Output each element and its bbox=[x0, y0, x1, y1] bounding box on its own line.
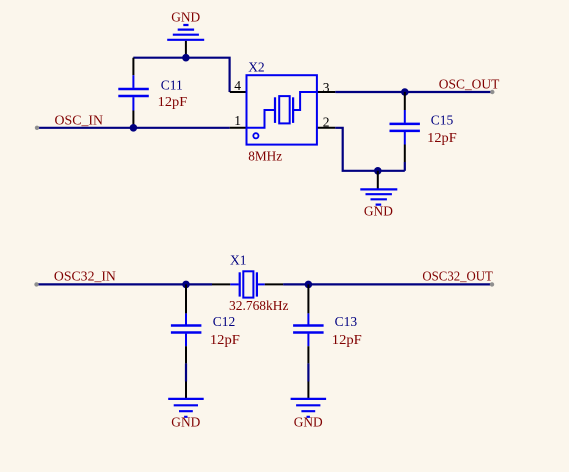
wire end marker (OSC32_IN) bbox=[34, 282, 38, 286]
svg-text:1: 1 bbox=[234, 113, 241, 128]
ground GND (below X2) bbox=[360, 171, 397, 219]
crystal oscillator X2 bbox=[230, 59, 335, 163]
capacitor C13 bbox=[293, 284, 362, 363]
svg-text:12pF: 12pF bbox=[427, 130, 457, 145]
pin 3 bbox=[317, 91, 335, 93]
crystal symbol inside bbox=[247, 110, 276, 128]
junction: C12 on OSC32 wire bbox=[182, 281, 190, 289]
body box bbox=[247, 75, 317, 144]
svg-text:GND: GND bbox=[171, 9, 200, 24]
svg-text:X1: X1 bbox=[230, 252, 247, 267]
svg-text:8MHz: 8MHz bbox=[248, 148, 282, 163]
wire end marker (OSC_IN) bbox=[35, 126, 39, 130]
wire end marker (OSC32_OUT) bbox=[490, 282, 494, 286]
ground GND (top power port) bbox=[167, 9, 204, 57]
wire: GND to C11 top and X2 pin 4 bbox=[133, 58, 229, 92]
pin 4 bbox=[230, 91, 247, 93]
crystal X1 bbox=[212, 252, 289, 312]
ground GND (below C13) bbox=[291, 382, 327, 430]
junction: ground stem on pin-2 wire bbox=[374, 167, 382, 175]
pin 2 lead bbox=[258, 283, 265, 285]
pin 1 bbox=[230, 127, 247, 129]
svg-text:12pF: 12pF bbox=[158, 94, 188, 109]
svg-text:C11: C11 bbox=[161, 78, 183, 93]
right electrode bbox=[256, 272, 258, 296]
pin 1 lead bbox=[212, 283, 230, 285]
svg-text:C12: C12 bbox=[213, 314, 236, 329]
svg-text:12pF: 12pF bbox=[210, 332, 241, 347]
wire: X2 pin 3 to OSC_OUT bbox=[335, 91, 492, 93]
wire OSC_IN bbox=[37, 127, 230, 129]
junction: C13 on OSC32 wire bbox=[305, 281, 313, 289]
junction: C15 on OSC_OUT wire bbox=[401, 88, 409, 96]
svg-text:12pF: 12pF bbox=[332, 332, 363, 347]
svg-text:C15: C15 bbox=[431, 112, 454, 127]
wire: X2 pin 2 to ground bbox=[335, 128, 405, 171]
wire OSC32_IN bbox=[37, 283, 213, 285]
svg-text:OSC32_OUT: OSC32_OUT bbox=[422, 269, 493, 284]
capacitor C12 bbox=[171, 284, 241, 363]
wire end marker (OSC_OUT) bbox=[490, 90, 494, 94]
pin 2 bbox=[317, 127, 335, 129]
svg-text:GND: GND bbox=[364, 203, 393, 218]
ground GND (below C12) bbox=[168, 382, 204, 430]
svg-text:GND: GND bbox=[294, 415, 323, 430]
svg-text:32.768kHz: 32.768kHz bbox=[229, 298, 289, 313]
capacitor C11 bbox=[118, 58, 187, 128]
crystal body bbox=[243, 271, 253, 297]
wire: C13 to ground bbox=[307, 363, 309, 381]
pin-1 indicator circle bbox=[253, 133, 258, 138]
wire: C12 to ground bbox=[185, 363, 187, 381]
svg-text:OSC_OUT: OSC_OUT bbox=[439, 77, 500, 92]
left electrode bbox=[239, 272, 241, 296]
svg-text:OSC_IN: OSC_IN bbox=[55, 112, 104, 127]
wire: C15 bottom to ground wire bbox=[404, 162, 406, 171]
junction: C11 on OSC_IN wire bbox=[130, 124, 138, 132]
svg-text:4: 4 bbox=[234, 78, 241, 93]
svg-text:C13: C13 bbox=[335, 314, 358, 329]
svg-text:OSC32_IN: OSC32_IN bbox=[54, 269, 116, 284]
svg-text:X2: X2 bbox=[248, 59, 265, 74]
junction: GND stem on top wire bbox=[182, 54, 190, 62]
svg-text:GND: GND bbox=[171, 415, 200, 430]
capacitor C15 bbox=[390, 92, 458, 162]
svg-text:3: 3 bbox=[323, 80, 330, 95]
svg-text:2: 2 bbox=[323, 114, 330, 129]
wire OSC32_OUT bbox=[283, 283, 492, 285]
